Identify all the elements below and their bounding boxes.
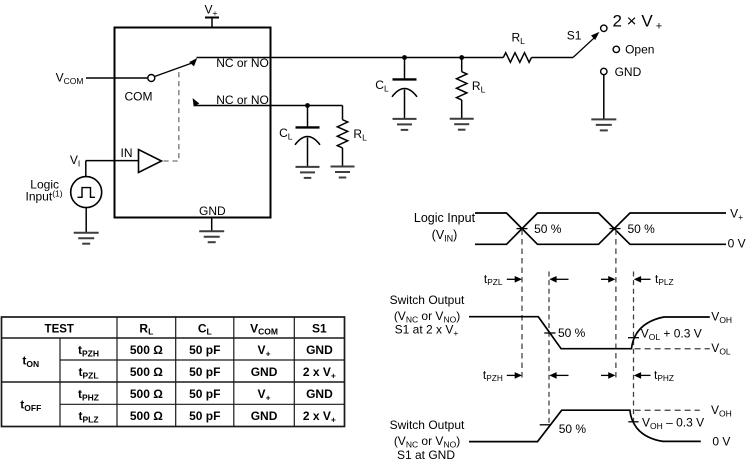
svg-text:Logic Input: Logic Input xyxy=(414,211,476,225)
table row lines xyxy=(2,338,345,404)
svg-text:NC or NO: NC or NO xyxy=(216,56,269,70)
COM terminal xyxy=(148,75,155,82)
svg-text:GND: GND xyxy=(306,343,333,357)
svg-text:IN: IN xyxy=(121,146,133,160)
wire S1 to ground xyxy=(603,75,605,120)
dashed timing line t3 xyxy=(615,230,617,379)
pulse source V1 xyxy=(71,177,102,208)
svg-text:TEST: TEST xyxy=(45,324,74,336)
dashed VOH level xyxy=(635,409,700,411)
dashed timing line t2 xyxy=(548,272,550,426)
ground (CL2) xyxy=(296,167,320,178)
svg-text:50 %: 50 % xyxy=(559,422,587,436)
wire VCOM input xyxy=(86,77,148,79)
label Switch Output block 2 xyxy=(390,418,465,462)
terminal GND (S1) xyxy=(601,68,607,74)
V+ supply terminal xyxy=(205,18,219,28)
resistor RL2 shunt xyxy=(337,106,347,167)
switch arm (COM to NO) xyxy=(155,58,197,76)
node junction dot C xyxy=(305,103,310,108)
svg-text:COM: COM xyxy=(125,89,153,103)
svg-text:50 pF: 50 pF xyxy=(189,365,220,379)
waveform switch output 2 (S1 at GND) xyxy=(469,410,701,441)
svg-text:500 Ω: 500 Ω xyxy=(130,387,163,401)
svg-text:500 Ω: 500 Ω xyxy=(130,365,163,379)
svg-text:NC or NO: NC or NO xyxy=(216,93,269,107)
waveform logic input true xyxy=(475,213,726,244)
svg-text:S1 at GND: S1 at GND xyxy=(397,448,455,462)
svg-text:500 Ω: 500 Ω xyxy=(130,409,163,423)
tick 50% wf2 xyxy=(544,332,555,334)
ground (S1) xyxy=(591,119,616,130)
wire NC or NO top output xyxy=(197,57,504,59)
node junction dot B xyxy=(459,55,464,60)
tick 50% crossing 1 xyxy=(517,228,528,230)
tPZL / tPLZ measurement arrows xyxy=(484,272,674,287)
DUT switch box U1 xyxy=(115,28,271,218)
tick 50% wf3 xyxy=(540,424,551,426)
svg-text:50 %: 50 % xyxy=(628,222,656,236)
control dashed line (buffer to switch) xyxy=(164,69,179,162)
waveform switch output 1 (S1 at 2xV+) xyxy=(469,317,710,349)
svg-text:GND: GND xyxy=(251,409,278,423)
svg-text:0 V: 0 V xyxy=(728,237,746,251)
dashed VOL level xyxy=(635,348,710,350)
svg-text:Switch Output: Switch Output xyxy=(390,293,465,307)
tick VOL+0.3 wf2 xyxy=(628,337,639,339)
label Switch Output block 1 xyxy=(390,293,465,338)
wire GND terminal xyxy=(211,218,213,232)
svg-text:GND: GND xyxy=(199,204,226,218)
svg-text:S1: S1 xyxy=(567,28,582,42)
wire NC or NO bottom output xyxy=(194,105,342,107)
svg-text:Open: Open xyxy=(625,42,654,56)
svg-text:50 pF: 50 pF xyxy=(189,343,220,357)
terminal Open xyxy=(613,46,619,52)
svg-text:S1: S1 xyxy=(312,322,327,336)
label Logic Input(1) xyxy=(26,178,63,204)
svg-text:GND: GND xyxy=(306,387,333,401)
terminal 2xV+ xyxy=(601,25,607,31)
table column lines xyxy=(60,317,294,427)
svg-text:50 %: 50 % xyxy=(558,326,586,340)
resistor RL1 shunt xyxy=(457,58,467,119)
svg-text:0 V: 0 V xyxy=(712,434,730,448)
svg-text:Switch Output: Switch Output xyxy=(390,418,465,432)
switch S1 arm xyxy=(573,32,599,58)
svg-text:500 Ω: 500 Ω xyxy=(130,343,163,357)
contact arrow NC bottom xyxy=(193,98,200,107)
dashed timing line t4 xyxy=(633,272,635,424)
capacitor CL1 xyxy=(392,58,417,119)
svg-text:50 pF: 50 pF xyxy=(189,409,220,423)
wire VI to IN xyxy=(86,161,139,177)
svg-text:50 pF: 50 pF xyxy=(189,387,220,401)
tick 50% crossing 2 xyxy=(610,228,621,230)
capacitor CL2 xyxy=(295,106,320,167)
svg-text:S1 at 2 x V+: S1 at 2 x V+ xyxy=(395,322,459,338)
svg-text:GND: GND xyxy=(251,365,278,379)
resistor RL3 series xyxy=(503,53,573,63)
svg-text:50 %: 50 % xyxy=(534,222,562,236)
label Logic Input (VIN) xyxy=(414,211,476,244)
ground (logic source) xyxy=(74,233,99,244)
test conditions table frame xyxy=(2,317,345,427)
tPZH / tPHZ measurement arrows xyxy=(483,368,674,383)
ground (CL1) xyxy=(393,119,417,130)
tick VOH-0.3 wf3 xyxy=(628,421,638,423)
wire source to ground xyxy=(85,208,87,233)
node junction dot A xyxy=(402,55,407,60)
table header text xyxy=(45,322,328,337)
table body text xyxy=(20,343,336,425)
waveform logic input complement xyxy=(475,213,726,244)
ground (RL1) xyxy=(450,119,474,130)
dashed timing line t1 xyxy=(521,230,523,379)
ground (DUT GND) xyxy=(199,231,224,242)
svg-text:GND: GND xyxy=(615,65,642,79)
buffer driver A1 xyxy=(139,150,162,173)
ground (RL2) xyxy=(331,167,355,178)
